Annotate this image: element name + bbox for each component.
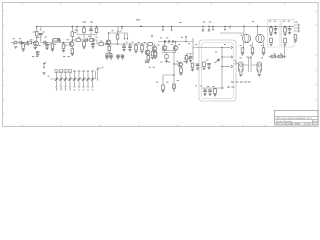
grid resistor R33	[191, 63, 194, 69]
output tube V2	[256, 26, 264, 43]
ground under R14	[108, 52, 111, 54]
tail resistor R37	[165, 53, 168, 61]
grid capacitor C16	[196, 64, 200, 68]
ground under C6	[91, 45, 94, 49]
B+ power rail	[36, 25, 294, 27]
rail junction at Q2	[72, 26, 74, 28]
ground under R20	[179, 74, 182, 76]
bypass network R44 C26	[52, 40, 60, 43]
ground under C16	[196, 68, 199, 70]
driver bus wire	[158, 41, 193, 43]
switch section S3	[64, 70, 67, 89]
ground under R19	[154, 57, 157, 59]
wire taps to K1	[234, 61, 239, 65]
ground under R17	[140, 51, 143, 53]
label smudges relay row	[231, 57, 252, 83]
rail junction dots feedback net	[76, 26, 97, 28]
heater resistor R31	[271, 55, 276, 58]
ground under C18	[208, 91, 211, 95]
title block row lines	[275, 117, 319, 123]
filter resistor R27	[270, 26, 273, 32]
arrow under R22	[173, 90, 175, 92]
output tap 1	[222, 46, 233, 48]
wire D to tone network	[72, 39, 76, 41]
resistor R40	[83, 27, 86, 33]
emitter join wire	[162, 50, 176, 52]
resistor R15 volume	[62, 42, 65, 49]
ground under R24	[241, 54, 244, 56]
transistor Q1	[34, 41, 39, 46]
cathode resistor R24	[241, 42, 244, 52]
switch ladder bus	[50, 71, 96, 79]
svg-text:SHT: SHT	[307, 124, 312, 126]
load resistor R8	[71, 27, 74, 41]
emitter resistor R19	[154, 51, 157, 56]
test point TP1	[124, 38, 126, 40]
supply module box 1	[268, 20, 281, 48]
tap pin chevron 2	[298, 27, 300, 29]
svg-text:19988: 19988	[294, 124, 301, 126]
rail drop arrow 4	[224, 26, 226, 31]
crossing X3	[145, 60, 148, 63]
node H	[173, 63, 175, 65]
transistor Q8	[106, 40, 111, 45]
ground under R37	[165, 61, 168, 63]
relay can K2	[257, 62, 261, 72]
heater wire run	[268, 56, 285, 58]
rail tap arrow	[117, 26, 119, 33]
stub wire W1	[97, 67, 104, 81]
wire I left	[163, 75, 174, 85]
cathode resistor R26	[262, 42, 265, 52]
ground under R6	[51, 49, 54, 51]
capacitor C25	[116, 54, 120, 59]
resistor R6	[51, 43, 54, 49]
ground under C24	[189, 58, 192, 62]
node J	[221, 47, 223, 49]
ground under pot	[42, 73, 45, 75]
supply module box 2	[282, 20, 295, 48]
ladder bus junctions	[56, 78, 94, 80]
resistor R16	[135, 43, 138, 50]
resistor R23	[203, 62, 206, 68]
ground under R3	[36, 51, 40, 56]
filter capacitor C12	[274, 26, 278, 30]
capacitor C8	[128, 43, 132, 47]
collector wire Q2	[71, 40, 73, 42]
node G	[175, 41, 177, 43]
filter resistor R29	[284, 26, 287, 32]
capacitor C23	[121, 54, 125, 59]
tap pin chevron 3	[298, 30, 300, 32]
node C	[46, 42, 48, 44]
rail drop arrow 2	[171, 26, 173, 31]
resistor R18	[148, 43, 153, 46]
label smudge pair	[227, 87, 235, 88]
node B collector Q1	[36, 37, 38, 39]
switch section S4	[69, 70, 72, 89]
collector bus wire	[109, 33, 128, 38]
component value label smudges	[13, 21, 298, 87]
screen capacitor C24	[189, 54, 193, 59]
ground under C7	[122, 47, 125, 51]
wire collector to C3	[40, 36, 42, 43]
node K	[221, 56, 223, 58]
emitter resistor R3	[34, 46, 37, 50]
long vertical feed wire	[173, 51, 175, 93]
ground under R35	[147, 61, 150, 63]
switch section S6	[78, 71, 81, 87]
transistor Q5	[173, 42, 178, 51]
capacitor C1	[20, 41, 21, 45]
border zone ticks left	[3, 11, 5, 114]
shield entry wire	[193, 47, 222, 49]
ground under R42	[294, 39, 297, 42]
transistor Q6	[178, 62, 183, 67]
ground under R11	[82, 47, 85, 49]
capacitor C5	[86, 38, 87, 42]
coupling capacitor C3	[44, 41, 45, 45]
switch section S9	[91, 71, 94, 87]
ground under supply drop	[283, 56, 286, 58]
capacitor C6	[91, 39, 95, 44]
resistor R10	[90, 39, 95, 42]
emitter resistor R7	[71, 46, 74, 53]
ground under R30	[283, 44, 286, 46]
switch section S8	[87, 71, 90, 87]
ground under R26	[262, 54, 265, 56]
wire C1 to node A	[21, 42, 29, 44]
rail tap arrow net	[76, 27, 78, 35]
rail drop arrow 1	[162, 26, 164, 31]
ground under R38	[185, 60, 188, 64]
connector J1	[13, 41, 17, 44]
wire C5 to R10	[87, 39, 89, 41]
wire C3 to node C	[41, 42, 48, 44]
bleed resistor R28	[270, 38, 273, 43]
node M	[221, 87, 223, 89]
cathode resistor R25	[251, 42, 254, 52]
test arrow TP4	[188, 58, 190, 60]
bottom bus wire	[202, 87, 224, 89]
resistor R11	[83, 39, 86, 46]
wire R2 to Q1 base	[32, 42, 34, 44]
ground under R34	[213, 94, 216, 96]
ferrite bead X2	[168, 40, 170, 42]
wire R13 to node E	[104, 43, 119, 45]
output bus vertical	[221, 48, 223, 89]
switch section S5	[73, 71, 76, 87]
rail tap arrow to Q3	[151, 35, 153, 38]
ground under R29	[283, 32, 286, 36]
rail junction dot	[121, 26, 123, 30]
ground under R28	[269, 44, 272, 46]
capacitor C26	[58, 38, 59, 42]
node I	[173, 74, 175, 76]
bias resistor R42	[294, 35, 297, 40]
ground under R21	[161, 90, 164, 93]
border zone ticks top	[22, 3, 285, 5]
feedback mid wire	[77, 33, 97, 35]
shield box inner	[202, 43, 234, 99]
transistor Q4	[162, 42, 167, 51]
wire R10 down to main	[84, 35, 99, 45]
svg-text:REV.SCHM.DWG: REV.SCHM.DWG	[276, 124, 294, 126]
screen resistor R38	[185, 54, 193, 60]
wire R9 to C5	[81, 39, 86, 41]
wire H to Q6	[174, 63, 178, 65]
ground legs K2	[258, 72, 261, 76]
title text	[276, 117, 318, 126]
small value label smudges row	[32, 53, 112, 57]
ground under R15	[62, 49, 65, 53]
resistor R21	[162, 85, 165, 90]
ground under R36	[151, 57, 154, 59]
bypass capacitor C2	[37, 27, 43, 38]
ground under C11	[207, 67, 210, 69]
coupling wires K1 K2	[243, 57, 257, 72]
ground under R33	[191, 69, 194, 71]
ferrite bead X3	[172, 40, 174, 42]
capacitor C17	[203, 88, 207, 91]
wire input lead	[11, 42, 14, 44]
emitter resistor R14	[108, 45, 111, 51]
output tap 3	[222, 65, 233, 67]
output tube V1	[242, 26, 250, 43]
resistor R13	[99, 43, 104, 46]
input stub box	[154, 52, 158, 57]
rail drop arrow 3	[212, 26, 214, 31]
dropping resistor R43	[116, 33, 119, 44]
capacitor C11	[207, 64, 211, 68]
load resistor R4	[36, 27, 39, 38]
svg-text:FM3 0910 CA R3 SCHEMATIC NO 2: FM3 0910 CA R3 SCHEMATIC NO 2	[276, 117, 313, 120]
node L	[221, 66, 223, 68]
resistor R17	[141, 43, 144, 50]
collector wire Q1	[36, 38, 38, 42]
resistor R20	[180, 67, 183, 73]
resistor R1	[22, 43, 27, 49]
resistor R2	[27, 41, 32, 44]
node E	[105, 43, 107, 45]
title block outer	[275, 110, 319, 125]
ground under R1	[22, 48, 25, 51]
rail flow arrow	[140, 26, 143, 28]
node D collector Q2	[72, 39, 74, 41]
node N	[108, 32, 110, 34]
svg-text:Rev: Rev	[313, 121, 318, 123]
ground at J1	[14, 47, 17, 49]
trimmer arrow	[215, 59, 220, 63]
switch section S7	[82, 71, 85, 87]
ground under R16	[134, 51, 137, 53]
collector wire Q8	[108, 33, 110, 40]
ground under R27	[269, 32, 272, 36]
lamp X2 on rail	[208, 26, 210, 32]
resistor R22	[173, 84, 176, 89]
capacitor C21	[105, 54, 109, 59]
relay can K1	[239, 62, 243, 72]
filter capacitor C13	[288, 26, 292, 30]
pot wiper arrow	[43, 63, 45, 69]
rail label smudge	[136, 19, 140, 20]
emitter resistor R35	[147, 55, 150, 60]
test point TP2	[127, 38, 129, 40]
main wire mid run	[118, 43, 148, 45]
wire J1 to C1	[17, 42, 19, 44]
border zone ticks bottom	[22, 125, 306, 127]
bypass resistor R36	[151, 50, 154, 56]
node A	[22, 42, 24, 44]
title block cell dividers	[292, 120, 313, 126]
bias feed wire	[162, 50, 174, 52]
ground under C8	[128, 47, 131, 51]
feedback arrow	[185, 35, 187, 42]
resistor R9	[76, 39, 81, 42]
ground under C17	[203, 91, 206, 95]
ground under R25	[251, 54, 254, 56]
output tap 2	[222, 56, 233, 58]
screen wire upper	[220, 32, 244, 34]
resistor R41	[95, 27, 98, 35]
ground legs K1	[239, 72, 242, 76]
ground under R7	[71, 54, 74, 56]
capacitor C22	[109, 54, 113, 59]
capacitor C7	[122, 43, 126, 47]
resistor R44	[53, 39, 58, 42]
rail junction at screen feed	[229, 26, 231, 29]
heater resistor R32	[278, 55, 283, 58]
output tap pins	[294, 25, 298, 31]
sheet border frame	[3, 3, 319, 127]
ferrite bead X1	[164, 40, 166, 42]
tap pin chevron 1	[298, 24, 300, 26]
lamp X1 on rail	[202, 26, 204, 32]
switch section S2	[60, 70, 63, 89]
ladder pin marks	[56, 89, 93, 90]
transistor Q3	[152, 46, 157, 51]
bleed resistor R30	[284, 38, 287, 43]
switch section S1	[55, 70, 58, 89]
transistor Q2	[69, 42, 74, 47]
svg-text:Product Number: Product Number	[276, 120, 292, 123]
capacitor C18	[208, 88, 212, 91]
capacitor C20	[89, 27, 93, 35]
feedback vertical wire	[192, 38, 194, 60]
resistor R34	[214, 88, 217, 93]
transistor Q7	[145, 44, 150, 55]
ground under C12	[274, 30, 277, 35]
label smudge rail net	[75, 22, 94, 31]
rail junction at Q1	[36, 26, 38, 28]
wire main run to Q2	[21, 42, 69, 44]
shield box outer	[199, 40, 236, 101]
capacitor C4	[45, 43, 49, 46]
ground under R23	[202, 68, 205, 70]
ground under C4	[45, 46, 48, 50]
border zone ticks right	[316, 11, 318, 100]
wire R18 to Q3	[153, 44, 155, 46]
supply drop wire	[284, 44, 286, 55]
ground under C13	[288, 30, 291, 35]
node F	[164, 41, 166, 43]
test arrow TP3	[184, 58, 186, 60]
